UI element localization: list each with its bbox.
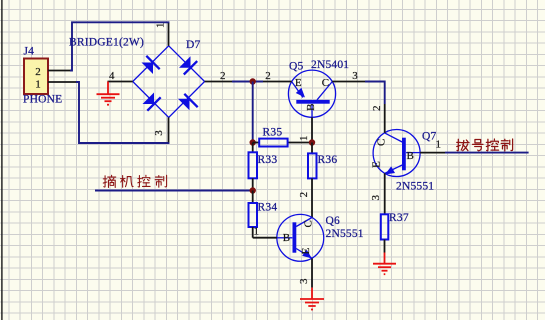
svg-text:3: 3 [370, 195, 382, 201]
net label 拨号控制 (dial control) [457, 139, 513, 151]
char 摘 [103, 175, 115, 187]
J4 pin 1 [35, 79, 77, 91]
svg-text:D7: D7 [186, 39, 201, 51]
char 机 [121, 176, 133, 188]
svg-text:C: C [376, 139, 388, 146]
bridge diode top-right [179, 56, 191, 68]
Q5 pin C (3) [332, 70, 365, 82]
svg-text:2: 2 [265, 70, 271, 82]
svg-text:1: 1 [155, 22, 167, 28]
Q6 pin E (3) [298, 259, 312, 288]
Q5 pin E (2) [263, 70, 292, 82]
svg-text:2N5401: 2N5401 [311, 59, 349, 71]
svg-text:PHONE: PHONE [23, 94, 62, 106]
wire bridge pin2 to Q5 emitter [232, 81, 263, 83]
wire Q5 collector to Q7 collector [365, 82, 385, 105]
J4 pin 2 [35, 66, 70, 78]
resistor R35 [253, 127, 312, 147]
svg-text:R33: R33 [258, 154, 278, 166]
ground at R37 [373, 253, 396, 275]
bridge pin 2 [205, 70, 232, 82]
svg-text:J4: J4 [24, 45, 35, 57]
wire left branch down to R35/R33 [252, 82, 254, 143]
svg-text:Q7: Q7 [422, 131, 437, 143]
bridge diode bottom-right [178, 99, 190, 111]
bridge pin 3 [153, 117, 169, 142]
ground at bridge pin 4 [97, 82, 120, 105]
char 拨 [457, 139, 469, 151]
svg-text:3: 3 [298, 278, 310, 284]
connector J4 [24, 59, 48, 95]
node junction at (312,142.5) [309, 139, 315, 145]
node junction at (252.7,142.5) [250, 139, 256, 145]
svg-text:C: C [302, 220, 314, 227]
resistor R34 [249, 191, 278, 238]
svg-text:2: 2 [35, 66, 41, 78]
bridge diode top-left [142, 63, 154, 75]
resistor R33 [249, 143, 278, 191]
wire J4 pin1 to bridge pin3 (bottom loop) [76, 82, 169, 143]
Q7 pin E (3) [370, 173, 385, 214]
svg-text:2: 2 [371, 106, 383, 112]
svg-text:3: 3 [153, 130, 165, 136]
char 制 [501, 139, 512, 151]
svg-text:E: E [295, 77, 302, 89]
svg-text:1: 1 [35, 79, 41, 91]
node junction at (252.7,81.5) [250, 78, 256, 84]
svg-text:B: B [407, 150, 414, 162]
svg-text:BRIDGE1(2W): BRIDGE1(2W) [69, 37, 144, 49]
wire J4 pin2 to bridge pin1 (top loop) [70, 22, 169, 70]
svg-text:C: C [322, 77, 329, 89]
transistor Q6 2N5551 [277, 214, 324, 261]
svg-text:1: 1 [254, 226, 260, 238]
svg-text:R35: R35 [263, 127, 283, 139]
svg-text:R34: R34 [258, 202, 278, 214]
svg-text:E: E [300, 247, 312, 254]
svg-text:3: 3 [352, 70, 358, 82]
Q5 pin B (1) [298, 117, 312, 142]
wire net 摘机控制 [95, 190, 253, 192]
Q6 pin C (2) [298, 192, 310, 198]
svg-text:Q5: Q5 [289, 61, 304, 73]
transistor Q7 2N5551 [373, 130, 420, 177]
svg-text:2N5551: 2N5551 [396, 181, 434, 193]
Q6 pin B (1) [253, 226, 277, 238]
Q7 pin C (2) [371, 104, 385, 133]
svg-text:B: B [305, 104, 317, 111]
svg-text:R36: R36 [318, 154, 338, 166]
wire net 拨号控制 [445, 152, 529, 154]
bridge pin 1 [155, 22, 169, 45]
svg-text:Q6: Q6 [326, 215, 341, 227]
bridge pin 4 [108, 70, 133, 82]
resistor R37 [381, 212, 409, 253]
char 控 [138, 175, 150, 187]
bridge diode bottom-left [143, 93, 155, 105]
char 控 [486, 139, 498, 151]
svg-text:2: 2 [220, 70, 226, 82]
bridge rectifier D7 BRIDGE1(2W) [133, 46, 205, 118]
transistor Q5 2N5401 [288, 70, 335, 117]
net label 摘机控制 (off-hook control) [103, 175, 166, 187]
svg-text:4: 4 [109, 70, 115, 82]
char 号 [473, 139, 483, 150]
node junction at (252.7,190.5) [250, 187, 256, 193]
svg-text:R37: R37 [389, 212, 409, 224]
svg-text:2: 2 [298, 192, 310, 198]
svg-text:1: 1 [298, 135, 310, 141]
char 制 [155, 175, 166, 187]
svg-text:E: E [370, 161, 382, 168]
svg-text:B: B [283, 232, 290, 244]
resistor R36 [308, 143, 337, 218]
svg-text:2N5551: 2N5551 [326, 228, 364, 240]
Q7 pin B (1) [420, 139, 445, 153]
ground at Q6 emitter [300, 288, 324, 310]
bridge diamond outline [133, 46, 205, 118]
